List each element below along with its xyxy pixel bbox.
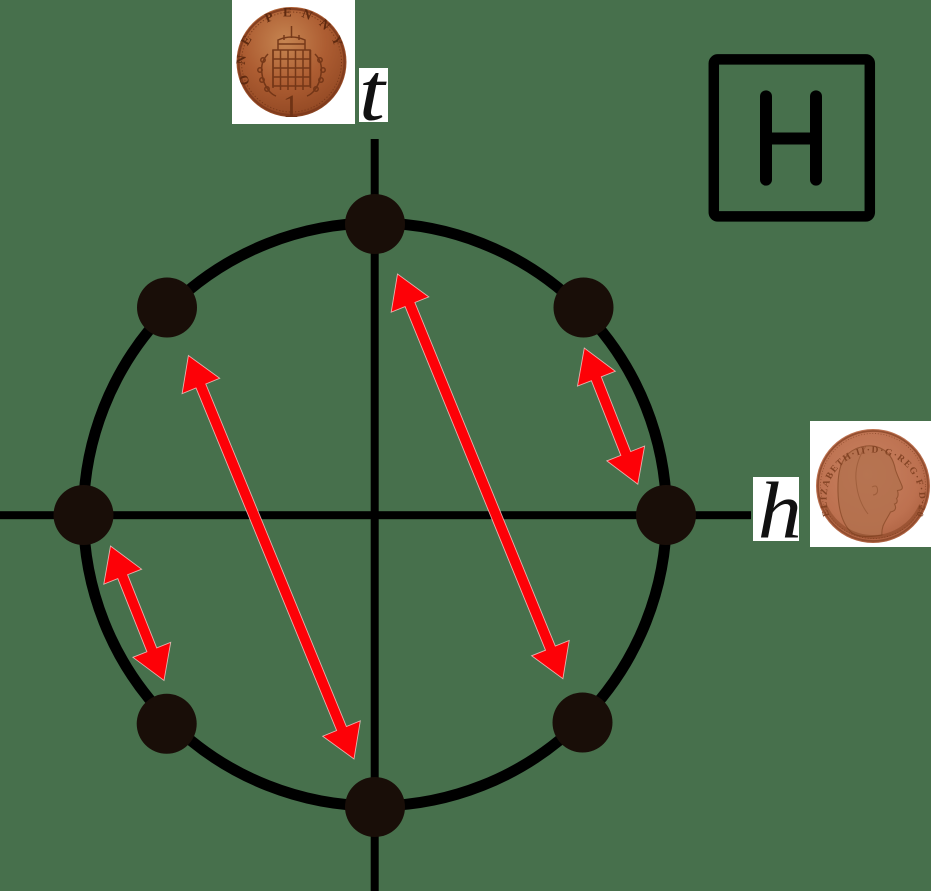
dot bottom <box>345 777 405 837</box>
svg-text:1: 1 <box>283 89 300 125</box>
dot lower-left <box>137 694 197 754</box>
h label white box <box>753 477 799 541</box>
horizontal axis h <box>0 511 751 519</box>
dot top <box>345 194 405 254</box>
H letter left stem <box>760 96 772 179</box>
heads coin (queen) white box <box>810 421 931 547</box>
dot upper-left <box>137 278 197 338</box>
tails coin (one penny) white box <box>232 0 355 124</box>
crown above portcullis <box>278 37 305 50</box>
red arrow long B (top dot to lower-right dot) <box>391 274 569 679</box>
H letter right stem <box>810 96 822 179</box>
circle of states <box>84 223 667 806</box>
red arrow short (upper-right dot to right dot) <box>578 348 645 484</box>
dot left <box>54 485 114 545</box>
rim shadow bottom <box>825 505 921 537</box>
Hadamard gate H box <box>714 59 870 216</box>
heads coin <box>0 0 930 543</box>
dot right <box>636 485 696 545</box>
tails coin <box>233 4 349 125</box>
svg-text:t: t <box>359 46 387 138</box>
dot lower-right <box>553 693 613 753</box>
hair shading <box>856 446 868 514</box>
t label glyph <box>359 46 387 138</box>
vertical axis t <box>371 139 379 891</box>
svg-text:h: h <box>758 467 802 555</box>
ear hint <box>872 486 878 495</box>
red arrow long A (upper-left dot to bottom dot) <box>182 356 360 760</box>
red arrow short (left dot to lower-left dot) <box>104 546 171 681</box>
portcullis emblem <box>258 26 325 96</box>
H letter crossbar <box>766 133 816 145</box>
chains <box>262 54 276 96</box>
t label white box <box>359 68 388 122</box>
dot upper-right <box>554 278 614 338</box>
queen profile relief <box>838 446 902 537</box>
ONE PENNY arc text <box>246 16 338 83</box>
ELIZABETH arc text <box>827 453 920 516</box>
h label glyph <box>758 467 802 555</box>
